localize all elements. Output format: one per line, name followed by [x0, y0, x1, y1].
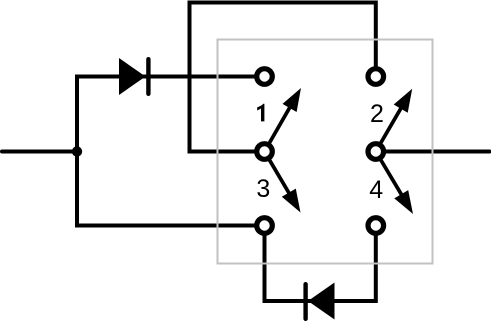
- diode D2 (bottom, pointing left, cathode left): [303, 282, 334, 321]
- terminal pin top-left: [257, 69, 273, 85]
- svg-text:2: 2: [370, 100, 384, 128]
- pin label 1: [257, 104, 264, 122]
- wire loop: pole 1 common up and over to top-right terminal: [190, 3, 376, 152]
- svg-text:3: 3: [256, 175, 270, 203]
- terminal pin middle-right (pole 2 common): [368, 144, 384, 160]
- diode D1 (left, anode left, pointing right): [119, 57, 151, 96]
- wire output right lead from pole 2 common: [376, 150, 490, 154]
- terminal pin bottom-left: [257, 218, 273, 234]
- node junction dot: [72, 146, 82, 156]
- terminal pin middle-left (pole 1 common): [257, 144, 273, 160]
- terminal pin bottom-right: [368, 218, 384, 234]
- svg-text:4: 4: [369, 176, 383, 204]
- switch 2 throw arrow up (to position 2): [376, 89, 412, 152]
- terminal pin top-right: [368, 69, 384, 85]
- wire junction up-branch to diode D1 and top-left terminal: [77, 77, 265, 152]
- wire bottom rail linking bottom terminals through diode D2: [265, 226, 376, 302]
- wire junction down-branch to bottom-left terminal: [77, 152, 265, 226]
- switch 2 throw arrow down (to position 4): [376, 152, 413, 215]
- switch 1 throw arrow up (to position 1): [265, 88, 302, 152]
- switch 1 throw arrow down (to position 3): [265, 152, 301, 213]
- switch body outline: [218, 40, 433, 264]
- wire input left lead: [2, 150, 77, 154]
